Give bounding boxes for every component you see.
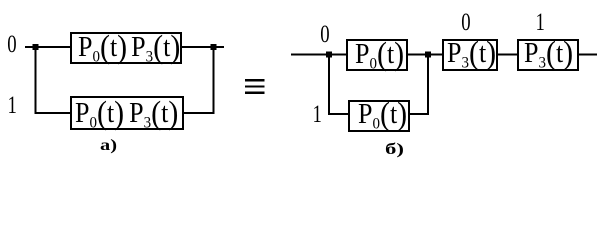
svg-text:1: 1 [313, 99, 322, 127]
svg-text:а): а) [100, 137, 117, 154]
wire vertical right of left diagram [213, 46, 215, 114]
block box b-top P0(t) [347, 40, 407, 70]
svg-text:P0(t)P3(t): P0(t)P3(t) [78, 28, 180, 65]
wire between series boxes [497, 54, 517, 56]
node junction left output [211, 44, 217, 50]
svg-text:P3(t): P3(t) [524, 34, 573, 71]
node junction left input [33, 44, 39, 50]
svg-text:0: 0 [461, 7, 470, 35]
wire input stub to left junction [25, 46, 70, 48]
svg-text:P3(t): P3(t) [447, 34, 496, 71]
svg-text:P0(t): P0(t) [355, 35, 404, 72]
block box b-series1 P3(t) [443, 40, 497, 70]
block box b-series2 P3(t) [518, 40, 578, 70]
wire b output [578, 54, 597, 56]
svg-text:P0(t): P0(t) [358, 95, 407, 132]
wire vertical b middle [427, 54, 429, 116]
wire vertical left branch [35, 46, 37, 114]
svg-text:б): б) [385, 141, 404, 158]
wire lower branch to box [35, 112, 71, 114]
svg-text:1: 1 [8, 90, 17, 118]
equivalence sign bar middle [245, 85, 265, 87]
equivalence sign bar bottom [245, 92, 265, 94]
block box a-top P0(t) P3(t) [71, 33, 181, 63]
svg-text:1: 1 [536, 7, 545, 35]
block box a-bottom P0(t) P3(t) [71, 97, 183, 129]
wire a-top box to right junction [182, 46, 224, 48]
wire b-bottom box to middle vertical [410, 113, 429, 115]
wire b lower branch to box [328, 113, 348, 115]
wire b input [291, 54, 346, 56]
wire vertical b left branch [328, 54, 330, 116]
node junction b input [326, 52, 332, 58]
svg-text:P0(t)P3(t): P0(t)P3(t) [75, 94, 178, 131]
node junction b middle [425, 52, 431, 58]
wire a-bottom box to vertical [184, 112, 214, 114]
svg-text:0: 0 [7, 29, 16, 57]
svg-text:0: 0 [320, 19, 329, 47]
block box b-bottom P0(t) [349, 101, 409, 131]
wire b-top box to middle junction [408, 54, 442, 56]
equivalence sign bar top [245, 79, 265, 81]
